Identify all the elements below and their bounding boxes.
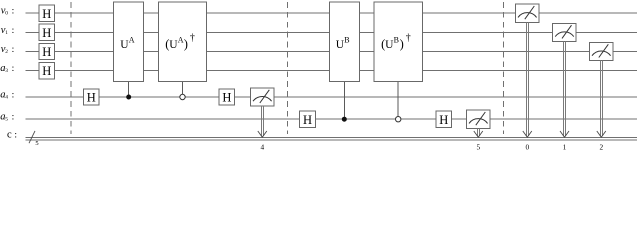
svg-text::: : — [12, 64, 15, 74]
H gate on v1 — [39, 24, 55, 40]
svg-text:5: 5 — [5, 117, 8, 123]
control line for (UB)dagger — [397, 81, 399, 116]
svg-text:0: 0 — [525, 142, 529, 150]
wire label v2 — [1, 44, 14, 55]
barrier dashed line 2 — [286, 2, 288, 134]
wire label a5 — [0, 112, 14, 123]
svg-text:): ) — [400, 37, 404, 51]
svg-text:5: 5 — [35, 140, 38, 147]
svg-text:†: † — [190, 32, 195, 43]
control dot for UB on a5 — [342, 117, 347, 122]
svg-text:1: 1 — [563, 142, 567, 150]
wire a3 — [25, 70, 637, 72]
wire a4 — [25, 96, 637, 98]
measurement on v1 — [553, 23, 577, 41]
control dot for UA on a4 — [126, 95, 131, 100]
H gate on a5 (second) — [436, 111, 452, 127]
measurement on v0 — [516, 4, 540, 22]
wire label v1 — [1, 25, 14, 36]
svg-text:): ) — [184, 37, 188, 51]
svg-text:H: H — [42, 26, 51, 40]
svg-text:4: 4 — [260, 142, 264, 150]
control line for UA — [128, 81, 130, 97]
barrier dashed line 3 — [502, 2, 504, 134]
svg-text:H: H — [87, 91, 96, 105]
wire label v0 — [1, 6, 14, 17]
control line for UB — [343, 81, 345, 119]
wire label a3 — [0, 63, 14, 74]
wire v1 — [25, 31, 637, 33]
svg-text:5: 5 — [476, 142, 480, 150]
H gate on a3 — [39, 62, 55, 78]
svg-text:2: 2 — [599, 142, 603, 150]
svg-text:B: B — [344, 36, 349, 45]
H gate on a4 (second) — [219, 89, 235, 105]
svg-text:H: H — [42, 7, 51, 21]
svg-text::: : — [12, 113, 15, 123]
classical double line from a4 measure — [258, 106, 267, 137]
svg-text:H: H — [303, 113, 312, 127]
svg-text:3: 3 — [5, 68, 8, 74]
classical double line from v1 measure — [560, 42, 569, 138]
H gate on v2 — [39, 43, 55, 59]
classical double line from a5 measure — [474, 128, 483, 137]
svg-text::: : — [12, 7, 15, 17]
gate (UB)dagger (multi-qubit box) — [374, 2, 422, 81]
svg-text:c: c — [7, 130, 12, 141]
H gate on a4 (first) — [84, 89, 100, 105]
wire v0 — [25, 12, 637, 14]
svg-text::: : — [12, 26, 15, 36]
svg-text:2: 2 — [5, 49, 8, 55]
wire a5 — [25, 118, 637, 120]
svg-text:†: † — [406, 32, 411, 43]
classical double line from v0 measure — [523, 22, 532, 137]
svg-text::: : — [14, 131, 17, 141]
H gate on v0 — [39, 5, 55, 21]
barrier dashed line 1 — [70, 2, 72, 134]
measurement on a5 — [467, 110, 491, 128]
classical wire c (double line) — [25, 136, 637, 138]
control line for (UA)dagger — [182, 81, 184, 94]
svg-text:H: H — [42, 45, 51, 59]
gate (UA)dagger (multi-qubit box) — [158, 2, 206, 81]
wire label a4 — [0, 89, 14, 100]
wire label c — [7, 130, 17, 141]
measurement on v2 — [590, 42, 614, 60]
open control for (UB)dagger on a5 — [396, 117, 401, 122]
svg-text:H: H — [222, 91, 231, 105]
svg-text::: : — [12, 90, 15, 100]
gate UB (multi-qubit box) — [329, 2, 359, 81]
H gate on a5 (first) — [300, 111, 316, 127]
classical bus slash — [29, 131, 35, 143]
svg-text::: : — [12, 45, 15, 55]
open control for (UA)dagger on a4 — [180, 94, 185, 99]
svg-text:H: H — [439, 113, 448, 127]
svg-text:H: H — [42, 64, 51, 78]
classical double line from v2 measure — [597, 61, 606, 138]
svg-text:4: 4 — [5, 95, 8, 101]
measurement on a4 — [251, 88, 275, 106]
svg-text:A: A — [129, 36, 135, 45]
svg-text:B: B — [394, 36, 399, 45]
gate UA (multi-qubit box) — [114, 2, 144, 81]
wire v2 — [25, 51, 637, 53]
svg-text:1: 1 — [5, 30, 8, 36]
svg-text:0: 0 — [5, 11, 8, 17]
